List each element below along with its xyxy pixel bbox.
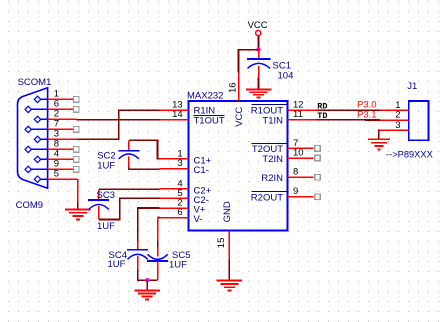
ground at U1 pin 15 — [217, 281, 243, 291]
svg-text:SCOM1: SCOM1 — [18, 77, 52, 88]
wire SC4 bottom to ground junction — [138, 270, 158, 281]
svg-text:1UF: 1UF — [108, 259, 126, 270]
wire U1 pin 11 T1IN to J1 pin 2 (net P3.1) — [316, 119, 380, 121]
capacitor SC1 — [247, 50, 271, 90]
svg-text:SC3: SC3 — [97, 190, 115, 201]
U1 pin 15 stub (GND) — [228, 231, 230, 260]
svg-text:T1IN: T1IN — [262, 115, 283, 126]
U1 pin name R1IN — [194, 106, 225, 117]
U1 pin 4 stub — [160, 188, 189, 190]
U1 pin 10 stub — [288, 157, 314, 159]
wire SCOM1.3 to U1 pin 13 R1IN — [76, 110, 159, 139]
svg-text:TD: TD — [317, 111, 327, 121]
power port VCC — [248, 20, 268, 49]
terminal square U1 pin 7 — [315, 146, 321, 152]
terminal square SCOM1 pin 9 — [74, 167, 80, 173]
terminal square U1 pin 10 — [315, 155, 321, 161]
ground at SCOM1 pin 5 — [65, 210, 91, 220]
U1 pin 16 stub (VCC) — [238, 72, 240, 101]
wire U1 pin 15 to ground — [228, 259, 230, 280]
svg-text:5: 5 — [54, 168, 59, 179]
U1 pin 1 stub — [160, 158, 189, 160]
svg-text:VCC: VCC — [234, 107, 245, 127]
wire U1 pin 6 V- to SC5 top — [158, 218, 160, 248]
SCOM1 pin 7 — [25, 126, 76, 132]
U1 pin 3 stub — [160, 168, 189, 170]
capacitor SC2 — [118, 140, 139, 167]
terminal square U1 pin 9 — [315, 194, 321, 200]
svg-text:11: 11 — [293, 109, 303, 120]
SCOM1 pin 2 — [34, 116, 76, 122]
svg-text:6: 6 — [177, 207, 182, 218]
wire J1 pin 3 to ground — [379, 130, 380, 139]
SCOM1 pin 5 — [34, 176, 77, 182]
U1 pin 9 stub — [288, 196, 314, 198]
U1 pin 11 stub — [288, 119, 317, 121]
svg-text:C1-: C1- — [194, 165, 209, 176]
U1 pin 7 stub — [288, 147, 314, 149]
svg-text:COM9: COM9 — [16, 200, 43, 211]
wire SC2 bottom to U1 pin 3 C1- — [129, 167, 160, 169]
U1 pin 6 stub — [160, 217, 189, 219]
svg-text:R2OUT: R2OUT — [251, 193, 283, 204]
U1 pin 5 stub — [160, 197, 189, 199]
terminal square SCOM1 pin 6 — [74, 107, 80, 113]
svg-text:3: 3 — [177, 158, 182, 169]
svg-text:8: 8 — [293, 167, 298, 178]
IC U1 MAX232 body — [189, 101, 288, 231]
ground at SC1 — [246, 90, 271, 98]
wire SCOM1.2 to U1 pin 14 T1OUT — [76, 119, 159, 121]
wire VCC junction to U1 pin 16 — [239, 50, 259, 73]
svg-text:T2IN: T2IN — [262, 154, 283, 165]
capacitor SC5 (flipped) — [147, 248, 168, 281]
svg-text:104: 104 — [278, 70, 294, 81]
svg-text:14: 14 — [172, 109, 183, 120]
SCOM1 pin 8 — [25, 146, 76, 152]
U1 pin name R2OUT (active low) — [251, 192, 287, 204]
svg-text:10: 10 — [293, 147, 304, 158]
U1 pin 2 stub — [160, 207, 189, 209]
junction node SC4/SC5 ground net — [145, 278, 149, 282]
connector J1 body — [409, 101, 429, 140]
junction node VCC net — [256, 47, 260, 51]
SCOM1 pin 4 — [34, 156, 76, 162]
wire SC3 top to U1 pin 4 C2+ — [99, 188, 160, 190]
svg-text:15: 15 — [216, 238, 227, 249]
ground at SC4/SC5 — [134, 290, 160, 299]
svg-text:MAX232: MAX232 — [187, 91, 223, 102]
svg-text:1UF: 1UF — [97, 221, 115, 232]
terminal square U1 pin 8 — [315, 175, 321, 181]
wire U1 pin 1 C1+ to SC2 top — [129, 140, 160, 159]
U1 pin name T2OUT (active low) — [252, 143, 287, 155]
ground at J1 pin 3 — [368, 139, 390, 149]
U1 pin name R1OUT (active low) — [251, 105, 287, 117]
SCOM1 pin 1 — [34, 96, 76, 102]
capacitor SC4 — [127, 241, 148, 270]
SCOM1 pin 9 — [25, 166, 76, 172]
wire U1 pin 12 R1OUT to J1 pin 1 (net P3.0) — [316, 109, 380, 111]
svg-text:VCC: VCC — [248, 20, 268, 31]
svg-text:1UF: 1UF — [169, 260, 187, 271]
svg-text:P3.1: P3.1 — [357, 109, 377, 120]
J1 pin 3 stub — [380, 129, 409, 131]
svg-text:3: 3 — [395, 120, 400, 131]
terminal square SCOM1 pin 8 — [74, 147, 80, 153]
J1 pin 2 stub — [380, 119, 409, 121]
capacitor SC3 — [88, 189, 109, 219]
svg-text:-->P89XXX: -->P89XXX — [386, 150, 433, 160]
svg-text:GND: GND — [222, 201, 233, 222]
svg-text:J1: J1 — [407, 81, 417, 92]
svg-text:9: 9 — [293, 186, 298, 197]
svg-text:16: 16 — [228, 82, 239, 93]
svg-text:1UF: 1UF — [97, 160, 115, 171]
svg-text:RD: RD — [317, 102, 327, 112]
wire junction to ground — [146, 280, 148, 290]
terminal square SCOM1 pin 7 — [74, 127, 80, 133]
U1 pin 12 stub — [288, 109, 317, 111]
U1 pin 14 stub — [160, 119, 189, 121]
svg-text:T1OUT: T1OUT — [194, 115, 225, 126]
wire SCOM1.5 to ground — [77, 179, 79, 209]
SCOM1 pin 3 — [34, 136, 76, 142]
J1 pin 1 stub — [380, 109, 409, 111]
terminal square SCOM1 pin 4 — [74, 157, 80, 163]
U1 pin 8 stub — [288, 176, 314, 178]
SCOM1 pin 6 — [25, 106, 76, 112]
terminal square SCOM1 pin 1 — [74, 97, 80, 103]
svg-text:R2IN: R2IN — [261, 173, 283, 184]
connector SCOM1 DB9 body — [18, 88, 48, 188]
wire SC3 bottom to U1 pin 5 C2- — [99, 198, 160, 219]
U1 pin 13 stub — [160, 109, 189, 111]
svg-text:V-: V- — [194, 214, 203, 225]
wire U1 pin 2 V+ to SC4 top — [138, 208, 160, 241]
